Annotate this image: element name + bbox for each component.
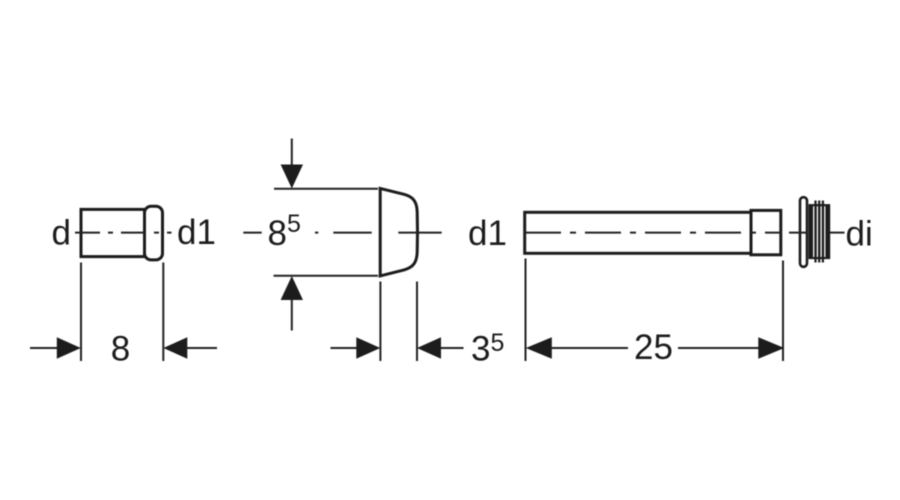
dimension 8.5 top arrow — [291, 139, 293, 168]
part cap — [380, 188, 417, 276]
extension line tube right — [782, 261, 784, 362]
svg-text:8: 8 — [111, 330, 130, 369]
dimension 3.5 right arrow — [417, 337, 441, 359]
wire centerline through capsule gap — [789, 232, 808, 234]
part threaded nut spikes — [816, 201, 823, 263]
svg-text:d1: d1 — [177, 213, 216, 252]
part tube body — [525, 212, 751, 253]
wire centerline part1 — [75, 232, 172, 234]
svg-text:35: 35 — [471, 329, 504, 369]
extension line cap left — [379, 282, 381, 362]
dimension 8.5 bottom arrow — [281, 276, 303, 300]
dimension 8 left arrow — [30, 347, 58, 349]
svg-text:di: di — [846, 215, 873, 254]
svg-text:d: d — [52, 214, 71, 253]
dimension 25 right arrow — [678, 347, 759, 349]
wire centerline dot — [315, 232, 318, 234]
extension line cap top horizontal — [274, 188, 378, 190]
wire centerline tube — [525, 232, 782, 234]
svg-text:d1: d1 — [468, 214, 507, 253]
part threaded nut stripes — [814, 206, 825, 257]
extension line cap bottom horizontal — [274, 275, 379, 277]
extension line cap right — [416, 282, 418, 362]
dimension 25 left arrow — [526, 337, 552, 359]
extension line tube left — [525, 259, 527, 362]
part tube end box — [751, 210, 781, 254]
wire centerline dash before cap — [333, 232, 371, 234]
part threaded nut block — [810, 205, 830, 258]
part flange washer capsule — [800, 197, 807, 267]
part sleeve body — [81, 209, 145, 256]
wire centerline dash through cap right edge — [398, 232, 441, 234]
wire centerline dash left of 8.5 label — [243, 232, 261, 234]
extension line right of sleeve — [162, 263, 164, 362]
wire centerline after nut — [830, 232, 845, 234]
dimension 3.5 left arrow — [331, 347, 358, 349]
part sleeve bead — [145, 206, 163, 260]
svg-text:85: 85 — [268, 210, 301, 253]
extension line left of sleeve — [80, 263, 82, 362]
dimension 8 right arrow — [163, 337, 187, 359]
svg-text:25: 25 — [634, 328, 673, 367]
